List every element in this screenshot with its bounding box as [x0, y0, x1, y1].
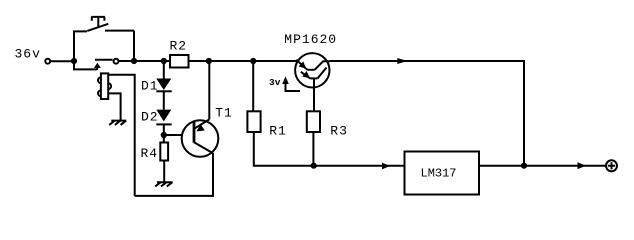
wire 3v probe pointer	[286, 84, 301, 91]
transistor MP1620 arrow upper	[299, 61, 306, 68]
svg-text:3v: 3v	[269, 77, 281, 88]
arrow to output terminal	[578, 162, 587, 169]
relay coil loop bumps	[98, 77, 111, 96]
transistor MP1620 collector zigzag upper	[315, 61, 330, 70]
junction dot R3 bottom bus	[311, 163, 317, 169]
wire push-button blade	[87, 24, 108, 31]
wire R1 bottom to LM317 input bus	[254, 132, 405, 166]
arrow into LM317	[382, 163, 390, 170]
ground below R4	[155, 182, 172, 186]
svg-text:R1: R1	[269, 124, 287, 139]
transistor T1 emitter arrow	[196, 124, 204, 131]
wire relay coil top lead to bottom bus	[108, 75, 135, 196]
svg-text:LM317: LM317	[421, 166, 457, 180]
diode D2 triangle	[156, 110, 171, 122]
wire main rail middle	[118, 60, 297, 62]
wire T1 emitter to main rail	[208, 61, 210, 119]
svg-text:T1: T1	[215, 105, 233, 120]
arrow on right rail	[397, 58, 407, 64]
svg-text:D1: D1	[141, 78, 159, 93]
regulator LM317 box	[405, 152, 480, 195]
wire R1 top lead	[252, 61, 254, 111]
junction dot D2/R4/base	[161, 132, 167, 138]
diode D2 cathode bar	[156, 123, 171, 125]
transistor MP1620 second diagonal	[301, 72, 310, 79]
wire bottom bus to T1 collector	[135, 153, 213, 196]
wire MP1620 base lead to R3	[313, 78, 315, 111]
wire relay contact blade	[95, 59, 113, 61]
node output plus terminal	[606, 160, 617, 171]
junction dot button right	[131, 58, 137, 64]
3v probe arrowhead	[282, 76, 289, 84]
wire base lead of T1	[164, 134, 194, 136]
resistor R1 body	[247, 111, 260, 132]
wire right rail from MP1620 to feedback corner	[330, 61, 524, 166]
svg-text:D2: D2	[141, 109, 159, 124]
transistor MP1620 zigzag lower	[318, 68, 327, 79]
wire between D1 and D2	[163, 91, 165, 109]
resistor R3 body	[307, 111, 320, 132]
resistor R4 body	[160, 143, 168, 161]
push-button actuator cap	[91, 17, 105, 21]
svg-text:R2: R2	[170, 39, 188, 54]
wire push-button branch right side	[105, 31, 134, 61]
transistor MP1620 inner horizontal upper	[307, 69, 314, 71]
wire push-button branch left riser	[74, 31, 87, 61]
svg-text:R4: R4	[141, 146, 159, 161]
transistor MP1620 inner horizontal lower	[310, 77, 317, 79]
wire relay coil bottom lead	[108, 93, 120, 120]
transistor MP1620 emitter diagonal	[296, 60, 307, 70]
push-button actuator stem	[97, 17, 99, 27]
wire node to R4	[163, 135, 165, 143]
junction dot R1 rail	[250, 58, 256, 64]
svg-text:36v: 36v	[15, 46, 41, 61]
transistor MP1620 body circle	[295, 53, 329, 87]
relay actuation arrow	[94, 63, 101, 68]
svg-text:MP1620: MP1620	[284, 32, 337, 47]
junction dot LM317 output/feedback	[521, 163, 527, 169]
wire main rail left	[50, 60, 74, 62]
transistor T1 base bar	[193, 122, 196, 143]
relay coil K1 body	[101, 73, 108, 99]
transistor T1 emitter diagonal	[194, 119, 209, 128]
transistor T1 collector diagonal	[194, 142, 213, 153]
transistor MP1620 arrow lower	[302, 71, 310, 78]
wire R4 to ground	[163, 161, 165, 183]
wire D2 to node	[163, 124, 165, 135]
wire LM317 output to plus terminal	[479, 165, 606, 167]
wire D1-D2 string top lead	[163, 61, 165, 79]
node relay fixed contact	[114, 59, 119, 64]
diode D1 triangle	[156, 79, 171, 91]
resistor R2 body	[170, 55, 189, 68]
wire R3 bottom lead	[312, 132, 314, 166]
node 36v input terminal	[45, 59, 50, 64]
transistor T1 body circle	[182, 120, 219, 157]
ground below relay coil	[109, 121, 126, 125]
junction dot R2 left / D1	[161, 58, 167, 64]
diode D1 cathode bar	[156, 90, 171, 92]
junction dot at 36v/button branch	[71, 58, 77, 64]
svg-text:R3: R3	[330, 124, 348, 139]
junction dot T1 emitter rail	[206, 58, 212, 64]
wire relay contact step-down	[74, 61, 97, 69]
